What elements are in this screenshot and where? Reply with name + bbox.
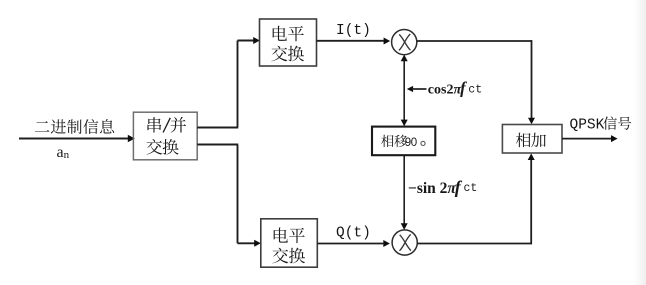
wire U4 to multiplier M2 [317, 240, 390, 247]
wire vertical to bottom branch [237, 145, 239, 243]
wire vertical to top branch [237, 41, 239, 127]
svg-text:QPSK: QPSK [570, 118, 605, 134]
svg-text:90: 90 [405, 137, 417, 149]
label binary-info 二进制信息 [35, 119, 114, 134]
multiplier M2 (bottom mixer) [392, 230, 417, 255]
label a_n [57, 144, 70, 161]
label QPSK signal [570, 116, 632, 133]
wire U2 to multiplier M1 [317, 38, 391, 45]
label I(t) [336, 23, 371, 39]
wire into bottom level-converter [238, 240, 261, 247]
box U3 phase-shift 相移90° [372, 127, 435, 156]
wire S/P top output [197, 127, 238, 129]
svg-text:−sin 2πf: −sin 2πf [408, 177, 463, 197]
input wire a_n [19, 135, 135, 142]
wire M2 to adder bottom branch [417, 153, 534, 244]
wire S/P bottom output [197, 144, 238, 146]
svg-text:I(t): I(t) [336, 23, 371, 39]
multiplier M1 (top mixer) [392, 29, 417, 54]
box U4 level-convert bottom 电平交换 [261, 219, 318, 267]
wire into top level-converter [238, 37, 260, 44]
svg-text:Q(t): Q(t) [336, 226, 371, 242]
label -sin 2 pi fc t [408, 177, 477, 197]
box U2 level-convert top 电平交换 [260, 19, 317, 66]
svg-text:ct: ct [468, 84, 482, 97]
wire carrier into M1 bottom [401, 55, 408, 122]
label cos 2 pi fc t [428, 78, 482, 97]
svg-text:ct: ct [464, 182, 478, 195]
box U5 adder 相加 [502, 125, 562, 154]
wire QPSK output [562, 135, 618, 142]
wire M1 to adder top branch [417, 40, 535, 124]
label Q(t) [336, 226, 371, 242]
box U1 serial-parallel 串/并交换 [133, 112, 197, 160]
wire phase-shifter to M2 [401, 156, 408, 230]
arrowhead into phase-shifter top [401, 120, 408, 127]
arrow cos carrier pointing left [407, 86, 427, 92]
right edge shading [634, 0, 646, 285]
